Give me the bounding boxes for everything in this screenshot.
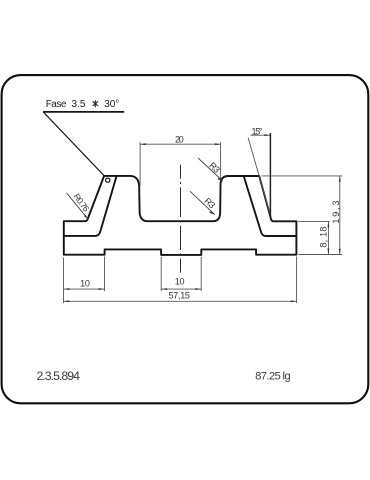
svg-text:57,15: 57,15 [168, 290, 190, 300]
chamfer line left [64, 176, 117, 236]
svg-text:2.3.5.894: 2.3.5.894 [36, 369, 80, 383]
svg-text:10: 10 [80, 278, 90, 288]
dim 10 middle [161, 257, 201, 291]
svg-text:Fase: Fase [46, 99, 67, 110]
R3 lower leader [190, 191, 215, 214]
centerline [180, 165, 182, 273]
svg-text:10: 10 [175, 276, 185, 286]
R0.76 leader [67, 193, 89, 220]
dim 15deg [248, 138, 270, 214]
drawing frame [2, 75, 369, 403]
chamfer line right [244, 176, 297, 236]
dim 19,3 [262, 176, 343, 255]
svg-text:30°: 30° [104, 99, 119, 110]
profile outline [64, 176, 297, 255]
svg-text:87.25 lg: 87.25 lg [255, 371, 291, 383]
dim 10 left [64, 257, 105, 292]
dim 8,18 [298, 221, 330, 254]
R3 upper leader [198, 158, 223, 181]
svg-text:20: 20 [175, 134, 184, 144]
svg-text:3.5: 3.5 [72, 99, 86, 110]
dim 20 [140, 142, 221, 186]
svg-text:8, 18: 8, 18 [318, 227, 328, 248]
dim 57,15 [64, 257, 297, 304]
svg-text:15°: 15° [252, 126, 263, 136]
svg-text:19,3: 19,3 [331, 201, 341, 224]
